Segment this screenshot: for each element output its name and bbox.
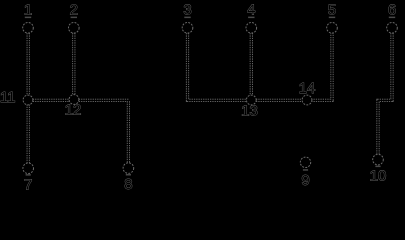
svg-text:6: 6: [388, 1, 396, 18]
wire pin4 to bus vertical: [250, 33, 253, 100]
pin 4 underline: [248, 17, 254, 19]
svg-text:11: 11: [0, 89, 16, 106]
pin 2 underline: [71, 17, 77, 19]
pin 3 circle: [182, 23, 193, 34]
pin 1 circle: [23, 23, 34, 34]
junction node 12: [69, 95, 79, 105]
pin 6 underline: [389, 17, 395, 19]
wire pin1 to pin7 vertical: [27, 33, 30, 163]
pin 9 circle: [300, 157, 310, 167]
pin 6 circle: [387, 23, 398, 34]
pin 4 circle: [246, 23, 257, 34]
svg-text:7: 7: [24, 176, 32, 193]
svg-text:9: 9: [301, 172, 309, 189]
pin 7 underline: [26, 174, 31, 176]
svg-text:5: 5: [328, 1, 336, 18]
pin 8 circle: [123, 163, 134, 174]
pin 7 circle: [23, 163, 34, 174]
wire pin6 jog to pin10: [378, 33, 392, 154]
pin 10 underline: [375, 166, 380, 168]
wire pin3 bus pin5: [188, 33, 333, 100]
svg-text:2: 2: [70, 1, 78, 18]
wire left bus to pin8: [28, 100, 128, 162]
svg-text:4: 4: [247, 1, 255, 18]
junction node 11: [23, 95, 33, 105]
pin 8 underline: [126, 174, 131, 176]
pin 10 circle: [373, 154, 384, 165]
svg-text:10: 10: [370, 167, 387, 184]
junction node 14: [302, 95, 312, 105]
svg-text:1: 1: [24, 1, 32, 18]
wire pin2 to bus vertical: [72, 33, 75, 100]
junction node 13: [246, 95, 256, 105]
pin 3 underline: [184, 17, 190, 19]
svg-text:14: 14: [299, 80, 316, 97]
svg-text:13: 13: [241, 103, 258, 120]
pin 9 underline: [303, 169, 308, 171]
pin 5 underline: [329, 17, 335, 19]
svg-text:8: 8: [124, 176, 132, 193]
pin 2 circle: [69, 23, 80, 34]
svg-text:12: 12: [65, 102, 82, 119]
pin 5 circle: [327, 23, 338, 34]
pin 1 underline: [25, 17, 31, 19]
svg-text:3: 3: [183, 1, 191, 18]
